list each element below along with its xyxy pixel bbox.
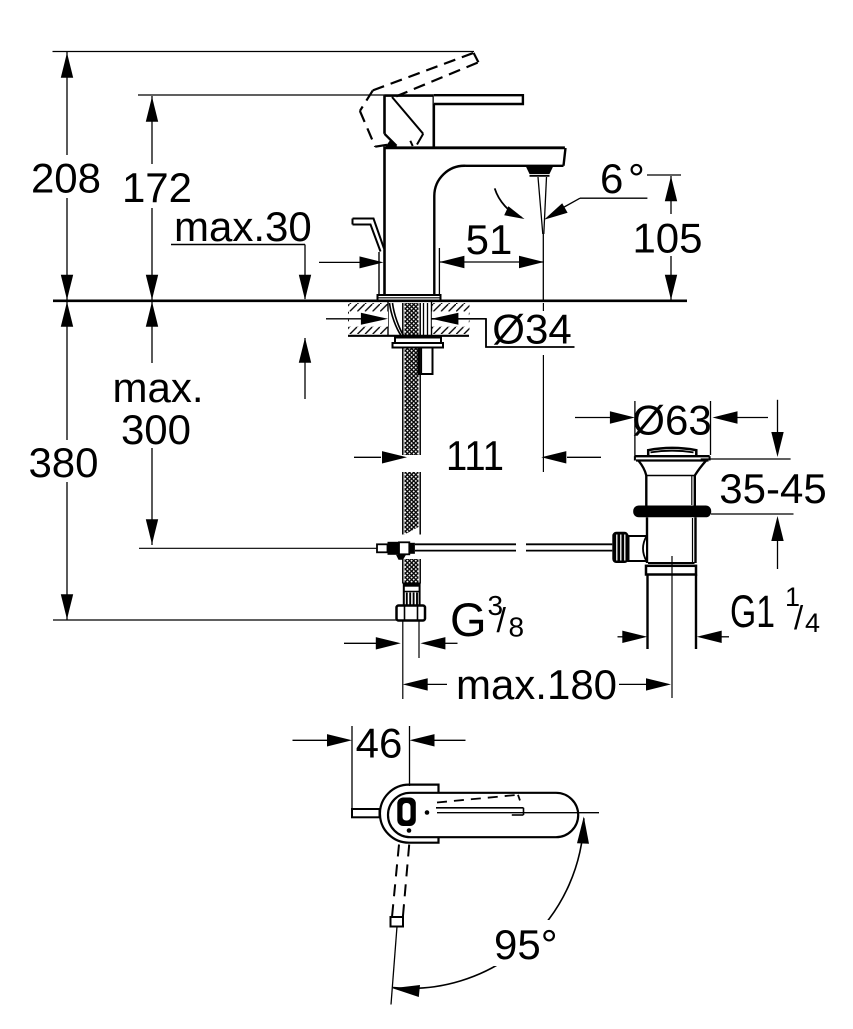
svg-text:/: /	[794, 599, 804, 636]
svg-text:300: 300	[121, 406, 191, 453]
svg-text:46: 46	[356, 720, 403, 767]
svg-text:max.180: max.180	[456, 661, 617, 708]
svg-text:G: G	[450, 593, 487, 646]
svg-text:G1: G1	[730, 586, 775, 637]
svg-text:95°: 95°	[494, 921, 558, 968]
svg-text:35-45: 35-45	[719, 465, 826, 512]
svg-text:51: 51	[466, 216, 513, 263]
svg-text:4: 4	[805, 608, 820, 638]
svg-text:°: °	[628, 155, 645, 202]
svg-text:/: /	[497, 602, 507, 640]
svg-text:380: 380	[28, 439, 98, 486]
svg-text:8: 8	[509, 612, 525, 643]
svg-text:105: 105	[632, 215, 702, 262]
svg-text:max.: max.	[112, 364, 203, 411]
svg-text:111: 111	[446, 432, 504, 479]
svg-text:6: 6	[600, 155, 623, 202]
svg-text:Ø34: Ø34	[492, 306, 571, 353]
svg-text:Ø63: Ø63	[632, 397, 711, 444]
svg-text:max.30: max.30	[174, 203, 312, 250]
svg-text:208: 208	[31, 155, 101, 202]
